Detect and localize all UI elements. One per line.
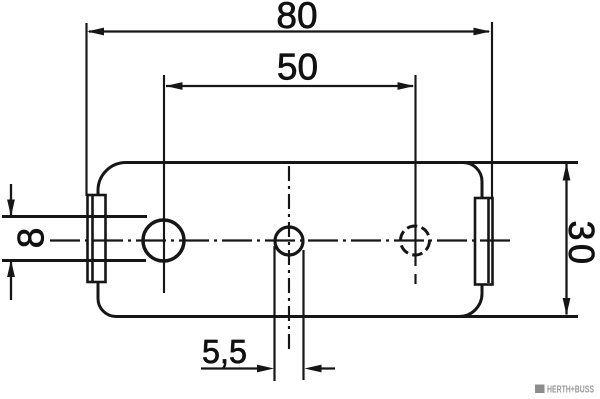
dimension 8 lower arrow [7,260,15,300]
body plate right edge corners [459,163,482,317]
svg-text:8: 8 [11,228,52,249]
dimension 30 line [563,164,571,316]
80 extension line left [85,23,87,196]
dimension 5,5 left segment [201,365,274,373]
slot tangent line left [273,246,275,381]
rod through left hole (upper edge) [2,215,147,218]
vertical centerline middle hole [288,166,290,354]
svg-text:5,5: 5,5 [202,333,247,370]
right mounting tab [475,198,493,285]
dimension 80 line [87,28,491,36]
slot tangent line right [302,250,304,380]
svg-text:80: 80 [276,0,317,36]
dimension 50 line [166,82,415,90]
svg-text:50: 50 [277,47,318,88]
rod through left hole (lower edge) [2,259,146,262]
watermark logo square [535,385,545,394]
dimension 5,5 right segment [305,365,336,373]
hole left (d8) [143,220,184,261]
50 extension right through hidden hole [414,75,416,266]
80 extension line right [491,22,493,199]
dimension 8 upper arrow [7,184,15,217]
left mounting tab [88,195,106,282]
hole right hidden (dashed) [401,226,430,255]
horizontal centerline [50,239,513,241]
svg-text:HERTH+BUSS: HERTH+BUSS [547,385,594,396]
hole middle (d5.5) [275,227,303,255]
centerline left hole / 50 extension left [163,75,165,293]
svg-text:30: 30 [561,220,600,267]
body plate outline top edge with 30-extension [98,163,578,317]
